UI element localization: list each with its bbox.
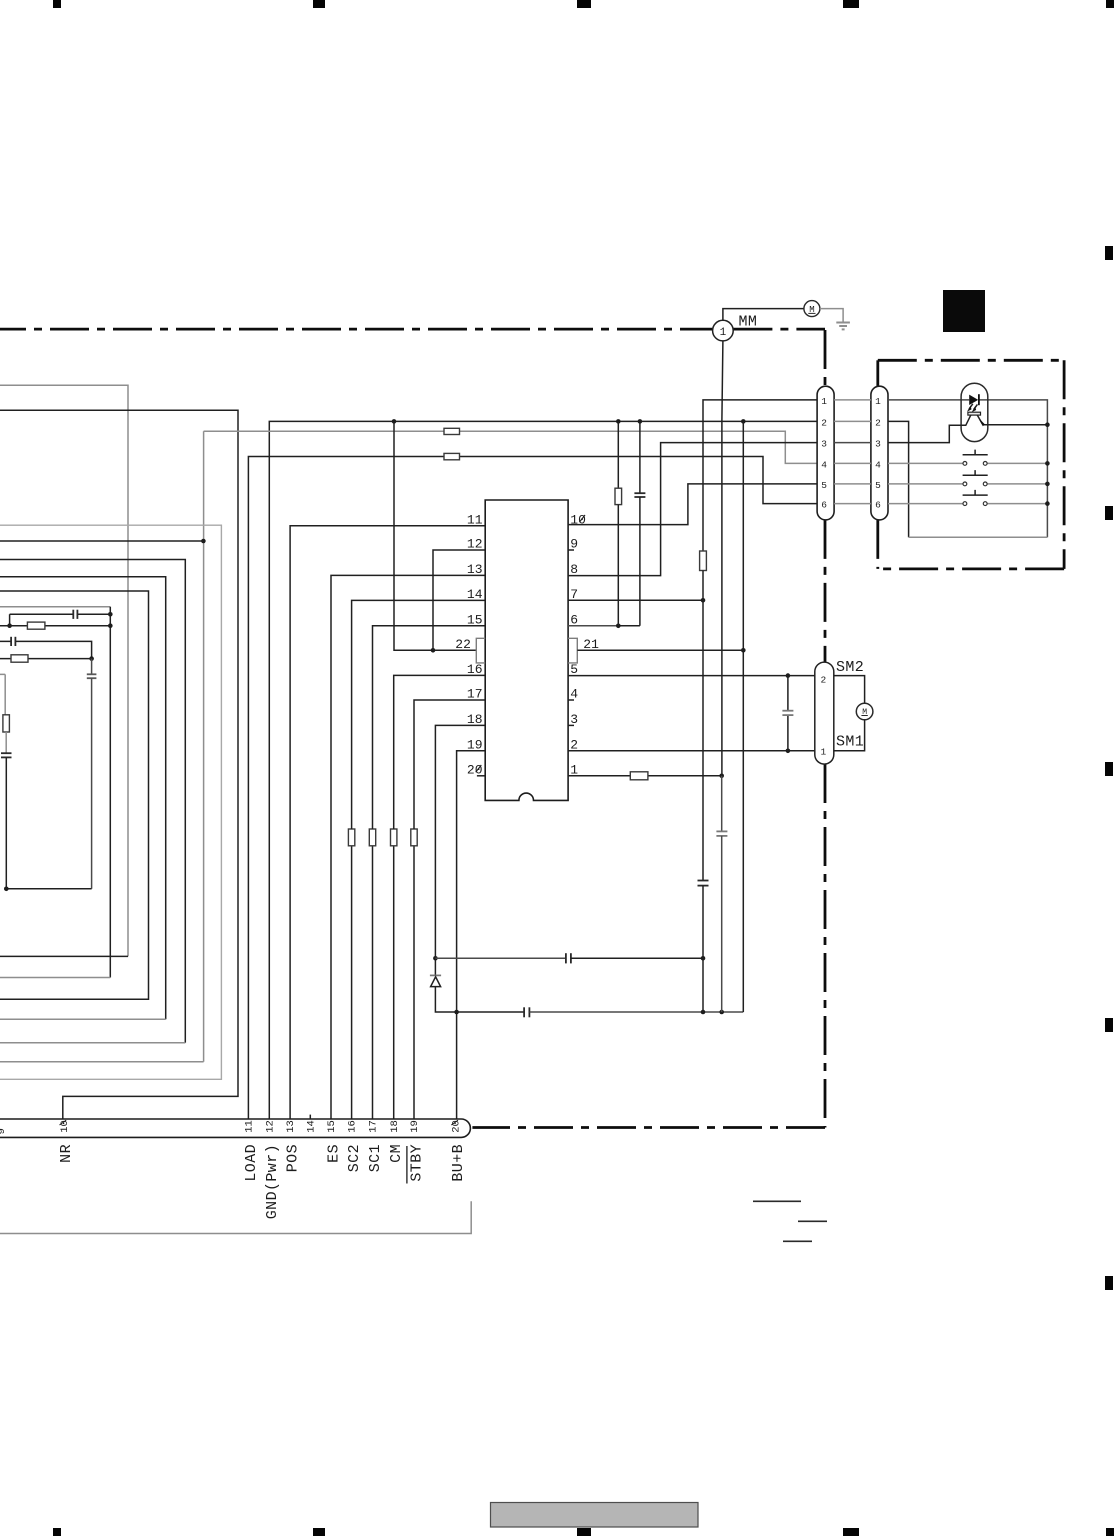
vertical capacitor on x=6.2 chain [1,752,12,754]
underline mark 3 [783,1240,812,1242]
motor SM circle [856,703,873,720]
strip pin 20 digit [451,1120,463,1133]
junction pin5 wire x=787.9 [786,673,791,678]
IC U1 body with bottom notch [485,500,568,800]
resistor on y=431 wire [444,428,460,434]
GND (Pwr) label [264,1144,281,1219]
registration mark bottom right [1106,1528,1114,1536]
junction y=625.7 x=9.6 [7,623,12,628]
bottom connector strip body [0,1119,470,1137]
junction rail at S1 [1045,461,1050,466]
junction pin22 rail at x=433 [431,648,436,653]
switch S2 contacts [963,482,967,486]
wire: net y=559.5 corner x=185.3 exits left y=1039 [0,560,185,1043]
vertical x=110.3 down to exit [109,607,111,978]
wire: IC pin12 corner drop to pin22 rail junction [433,550,485,650]
dash-dot block border: left block right edge mid [824,520,827,662]
wire: net y=606.7 corner x=110.3 exits left y=975.3 [0,606,110,608]
capacitor in series on y=614.3 [72,610,74,619]
dash-dot block border: right block left edge lower [876,520,879,569]
registration mark bottom 4 [843,1528,859,1536]
svg-text:LOAD: LOAD [243,1144,260,1182]
pin 3 stub [568,724,574,726]
strip pin 11 digit [244,1120,256,1133]
wire: J2 pin1 to photointerrupter LED and right rail [888,400,1047,537]
switch S1 contacts [963,462,967,466]
wire: y=658.6 off-page with resistor [0,658,92,660]
svg-text:13: 13 [285,1120,297,1133]
svg-text:3: 3 [821,439,827,450]
wire: IC pin8 to connector J1 pin3 [568,443,817,576]
strip pin 13 digit [285,1120,297,1133]
svg-text:18: 18 [389,1120,401,1133]
gray return wire below strip [0,1201,471,1233]
registration mark right 3 [1105,762,1113,776]
wire: y=541 off-page left to tee [0,540,203,542]
wire: IC pin2 to SM connector pin1 [568,750,815,752]
svg-text:SM2: SM2 [836,659,864,676]
vertical capacitor on x=91.6 below junction [91,659,93,675]
registration mark top 4 [843,0,859,8]
junction pin2 wire x=787.9 [786,749,791,754]
phototransistor collector leg to J2 pin3 (step) [888,415,971,443]
node 1 circle (MM feed) on block border [713,320,734,341]
strip pin 16 digit [347,1120,359,1133]
pin 14 stub tick [309,1115,311,1119]
svg-text:19: 19 [467,737,483,752]
junction bus at x=456.6 [454,1010,459,1015]
pin 4 stub [568,699,574,701]
wire: IC pin18 drop x=435.4 down to diode [435,725,485,975]
svg-text:POS: POS [285,1144,302,1172]
dash-dot block border: right block top edge [878,359,1064,362]
wire: light gray net y=525.3 corner x=221.6 exits left y=1074.4 [0,525,221,1079]
strip pin 14 digit [305,1120,317,1133]
underline mark 2 [798,1220,827,1222]
capacitor between pin5 and pin2 wires at x=787.9 [787,676,789,751]
junction bus x=703 [701,1010,706,1015]
slot bar [968,412,981,415]
registration mark right 1 [1105,246,1113,260]
vertical x=743.3 from y=421.4 junction down to bus corner [742,421,744,1012]
capacitor on y=958.3 wire [565,953,567,963]
capacitor in series on y=641.4 [10,637,12,646]
underline mark 1 [753,1200,801,1202]
svg-text:14: 14 [305,1120,317,1133]
pin 9 stub [568,549,574,551]
junction on y=421.4 at x=618.3 [616,419,621,424]
STBY label with overline [409,1144,426,1182]
wire: IC pin6 to x=618.3 junction and on to x=639.9 [568,625,618,627]
svg-text:5: 5 [821,480,827,491]
wire: strip pin15 riser up to IC pin13 [331,575,485,1119]
POS label [285,1144,302,1172]
svg-text:9: 9 [0,1128,8,1134]
gray footer box [491,1503,699,1528]
wire: capacitor down to loop junction [5,757,7,888]
svg-text:11: 11 [467,512,483,527]
junction on y=421.4 at x=639.9 [638,419,643,424]
switch S2 wires [888,483,1047,485]
wire: motor SM to SM connector pin1 [834,720,865,751]
wire: capacitor bottom down to pin6 wire [639,497,641,626]
svg-text:2: 2 [875,417,881,428]
wire: x=703 resistor bottom through pin7 junction down to capacitor [702,571,704,881]
vertical x=618.3: y=421.4 junction down to resistor [617,421,619,488]
switch S1 wires [888,462,1047,464]
junction x=435.4 on y=958.3 wire [433,956,438,961]
registration mark right 5 [1105,1276,1113,1290]
wire: capacitor branch y=614.3 [10,614,111,625]
J1-J2 link wire pin1 [834,399,871,401]
wire: strip pin17 riser upper to IC pin15 [373,626,486,829]
wire: IC pin5 to SM connector pin2 [568,675,815,677]
svg-text:SM1: SM1 [836,734,864,751]
registration mark bottom 2 [313,1528,325,1536]
diode D (anode below, cathode bar up) on x=435.4 [430,974,441,976]
resistor on strip pin18 riser [391,829,397,846]
svg-text:SC1: SC1 [367,1144,384,1172]
pin 21 bracket [568,638,577,663]
svg-text:CM: CM [388,1144,405,1163]
wire: strip pin19 riser (lower part) [413,846,415,1119]
SC1 label [367,1144,384,1172]
vertical x=639.9: y=421.4 junction down to capacitor [639,421,641,493]
wire: IC pin1 with series resistor to MM drop junction [568,775,722,777]
J1-J2 link wire pin2 [834,420,871,422]
junction pin7 wire x=703 [701,598,706,603]
junction x=110.3 y=625.7 [108,623,113,628]
svg-text:14: 14 [467,587,483,602]
svg-text:5: 5 [570,662,578,677]
registration mark bottom 1 [53,1528,61,1536]
junction x=110.3 y=614.3 [108,612,113,617]
capacitor on bus y=1012 [523,1007,525,1017]
wire: connector J1 pin1 feed via x=703 vertical with resistor [703,400,817,551]
phototransistor emitter leg with arrow to rail [977,415,1047,425]
svg-text:17: 17 [368,1120,380,1133]
svg-text:SC2: SC2 [346,1144,363,1172]
resistor on y=625.7 [27,622,45,629]
slash on zero of pin 20 label [476,765,482,772]
junction rail at S3 [1045,501,1050,506]
resistor on strip pin17 riser [369,829,375,846]
wire: resistor bottom to pin6 junction [617,505,619,626]
wire y=958.3 capacitor to x=703 junction [571,957,703,959]
wire: stub and RC chain at far left x=5.2 [0,674,5,714]
wire: strip pin18 riser upper to IC pin16 [394,675,486,829]
junction pin21 wire at x=743.3 [741,648,746,653]
svg-text:4: 4 [875,459,881,470]
svg-text:6: 6 [875,500,881,511]
strip pin 9 partial digit [0,1128,8,1134]
dash-dot block border: left block top edge [0,328,712,331]
junction on y=421.4 at x=743.3 [741,419,746,424]
J1-J2 link wire pin4 [834,462,871,464]
junction on y=421.4 at x=394 [392,419,397,424]
svg-text:2: 2 [821,417,827,428]
junction pin1 wire x=721.7 [719,774,724,779]
dash-dot block border: right block right edge [1063,360,1066,569]
wire: x=91.6 capacitor down to loop bottom [91,678,93,889]
svg-text:1: 1 [821,747,827,758]
registration mark top 1 [53,0,61,8]
svg-text:BU+B: BU+B [450,1144,467,1182]
svg-text:STBY: STBY [409,1144,426,1182]
capacitor on x=639.9 [634,492,645,494]
NR label [58,1144,75,1163]
dash-dot block border: left block bottom edge [472,1126,825,1129]
wire: net A off-page left, corner down at x=128, exits left at y=956.7 [0,385,128,956]
svg-text:19: 19 [409,1120,421,1133]
svg-text:15: 15 [467,612,483,627]
registration mark top right corner [1106,0,1114,8]
svg-text:3: 3 [875,439,881,450]
dash-dot block border: top edge right of node 1 circle [733,328,825,331]
J1-J2 link wire pin3 [834,442,871,444]
switch S3 wires [888,503,1047,505]
junction bus x=721.7 [719,1010,724,1015]
registration mark bottom 3 [577,1528,591,1536]
ground symbol [836,322,850,324]
strip pin 17 digit [368,1120,380,1133]
svg-text:GND(Pwr): GND(Pwr) [264,1144,281,1219]
svg-text:2: 2 [821,674,827,685]
svg-text:13: 13 [467,562,483,577]
junction pin6 wire x=618.3 [616,624,621,629]
svg-text:12: 12 [264,1120,276,1133]
svg-text:1: 1 [875,396,881,407]
solid black index square top right [943,290,985,332]
strip pin 19 digit [409,1120,421,1133]
wire: IC pin19 drop to bus then strip pin20 BU+B [457,751,486,1119]
SM connector body [815,662,834,764]
wire y=958.3 from pin18 drop to capacitor [435,957,566,959]
wire: strip pin11 riser to y=456.5, corner down at x=763 into connector pin 6 [248,457,817,1120]
connector J1 body [817,386,834,520]
dash-dot block border: right block bottom edge [878,568,1064,571]
resistor on x=618.3 [615,488,622,504]
switch S2 actuator [963,470,988,475]
wire: node 1 drop x=722 down to pin1 wire junction [722,341,723,776]
slash on strip pin20 zero [451,1120,458,1125]
resistor on x=703 [700,551,707,571]
BU+B label [450,1144,467,1182]
wire: IC pin7 to x=703 junction [568,599,703,601]
svg-text:5: 5 [875,480,881,491]
wire: resistor to capacitor [5,732,7,753]
wire: strip pin13 riser up to IC pin11 [290,526,485,1119]
switch S3 contacts [963,502,967,506]
svg-text:8: 8 [570,562,578,577]
wire: resistor branch y=625.7 off-page to x=110.3 [0,625,110,627]
resistor on y=456.5 wire [444,453,460,459]
registration mark right 4 [1105,1018,1113,1032]
slash on zero of pin 10 label [579,515,585,522]
wire: vertical x=394 from y=421.4 junction down to pin22 rail [394,421,476,650]
pin 22 bracket [476,638,485,663]
wire: net y=591 corner x=148.7 exits left y=1004.3 [0,591,149,999]
wire: strip pin12 riser to y=421.4 rail (GND net) [269,421,817,1119]
wire: strip pin10 net NR up path (y=410 off-page to bottom corner) [0,410,238,1119]
wire: gray net y=431 from corner x=203.4 to step into connector pin 4 [0,431,817,1061]
light arrows [969,404,977,410]
vertical resistor on x=5.2 chain [3,715,9,732]
dash-dot block border: left block right edge upper [824,330,827,386]
svg-text:17: 17 [467,687,483,702]
svg-text:NR: NR [58,1144,75,1163]
svg-text:18: 18 [467,712,483,727]
svg-text:MM: MM [739,314,758,331]
svg-text:15: 15 [326,1120,338,1133]
resistor on strip pin16 riser [348,829,354,846]
registration mark right 2 [1105,506,1113,520]
SC2 label [346,1144,363,1172]
svg-text:10: 10 [59,1120,71,1133]
svg-text:12: 12 [467,537,483,552]
strip pin 18 digit [389,1120,401,1133]
registration mark top 2 [313,0,325,8]
strip pin 10 digit [59,1120,71,1133]
junction y=888.8 x=6.3 [4,887,9,892]
svg-text:11: 11 [244,1120,256,1133]
switch S1 actuator [963,450,988,455]
resistor on pin1 wire [630,772,648,780]
junction rail at S2 [1045,482,1050,487]
LOAD label [243,1144,260,1182]
wire: diode anode to bottom bus corner [435,987,456,1012]
pin 20 stub [477,775,485,777]
wire: IC pin21 rail from bracket to x=743.3 junction [577,649,743,651]
capacitor on x=703 [698,880,709,882]
bus y=1012 left segment to capacitor [457,1011,524,1013]
photo-interrupter PH1 outline [961,383,988,441]
motor MM circle [804,301,820,317]
wire: IC pin10 to connector J1 pin5 [568,484,817,525]
strip pin 15 digit [326,1120,338,1133]
junction y=541 tee on x=203.4 [201,539,206,544]
svg-text:20: 20 [451,1120,463,1133]
bus y=1012 right segment [529,1011,743,1013]
J1-J2 link wire pin5 [834,483,871,485]
resistor on y=658.6 [11,655,28,662]
wire: x=703 capacitor down to bus [702,886,704,1012]
strip pin 12 digit [264,1120,276,1133]
J1-J2 link wire pin6 [834,503,871,505]
wire: strip pin18 riser (lower part) [393,846,395,1119]
wire: J2 pin2 down to bottom return [888,421,909,537]
bottom return wire [909,536,1048,538]
svg-text:4: 4 [821,459,827,470]
wire: strip pin16 riser (lower part) [351,846,353,1119]
CM label [388,1144,405,1163]
wire: strip pin17 riser (lower part) [372,846,374,1119]
svg-text:ES: ES [326,1144,343,1163]
svg-text:16: 16 [347,1120,359,1133]
wire: y=641.4 off-page with series capacitor, corner down at x=91.6 [0,641,92,658]
svg-text:6: 6 [821,500,827,511]
wire: motor MM to ground [820,309,843,322]
LED (filled triangle + cathode bar) [969,395,978,405]
svg-text:16: 16 [467,662,483,677]
svg-text:1: 1 [821,396,827,407]
wire: node 1 up and right to motor MM [723,309,804,321]
wire: strip pin19 riser upper to IC pin17 [414,700,485,829]
wire: net y=576.8 corner x=165.9 exits left y=1021.8 [0,577,166,1020]
wire: SM connector pin2 to motor SM [834,676,865,704]
junction rail at emitter wire [1045,422,1050,427]
wire: x=721.7 from pin1 junction down to capacitor [721,776,723,831]
resistor on strip pin19 riser [411,829,417,846]
connector J2 body [871,386,888,520]
wire: x=721.7 capacitor down to bus [721,836,723,1012]
capacitor on x=721.7 [716,830,727,832]
wire: strip pin16 riser upper to IC pin14 [352,600,486,829]
svg-text:1: 1 [720,327,727,339]
slash on strip pin10 zero [60,1120,67,1125]
junction y=658.6 x=91.6 [89,656,94,661]
dash-dot block border: left block right edge lower [824,764,827,1128]
svg-text:22: 22 [455,637,471,652]
registration mark top 3 [577,0,591,8]
switch S3 actuator [963,490,988,495]
dash-dot block border: right block left edge upper [876,360,879,386]
wire: loop bottom y=888.8 [6,888,91,890]
ES label [326,1144,343,1163]
junction x=703 on y=958.3 [701,956,706,961]
